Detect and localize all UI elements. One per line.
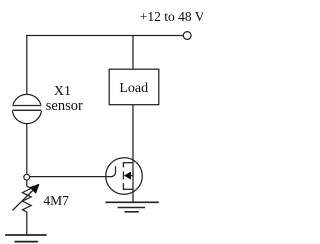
source bar (123, 188, 133, 190)
transistor Q1 MOSFET (106, 158, 143, 195)
wire top horizontal rail (26, 35, 183, 37)
wire supply branch to load (132, 36, 134, 70)
svg-text:Load: Load (119, 81, 148, 96)
wire left vertical to sensor (26, 35, 28, 94)
gate electrode (106, 166, 116, 176)
node junction (24, 174, 30, 180)
svg-text:sensor: sensor (46, 98, 83, 114)
svg-text:X1: X1 (54, 84, 71, 99)
wire junction to resistor (26, 180, 28, 186)
channel segment middle (122, 171, 124, 179)
wire sensor to junction (26, 124, 28, 175)
drain bar (123, 162, 133, 164)
wire gate horizontal (30, 176, 107, 178)
ground transistor (106, 202, 159, 212)
channel segment top (122, 163, 124, 168)
body arrow (124, 172, 131, 179)
sensor X1 (11, 94, 43, 123)
channel segment bottom (122, 183, 124, 189)
wire drain-source vertical (132, 163, 134, 203)
terminal supply (183, 32, 191, 40)
wire resistor to ground (26, 212, 28, 235)
wire load to drain (132, 105, 134, 163)
resistor 4M7 variable (13, 184, 39, 212)
load box (109, 69, 159, 105)
svg-text:+12 to 48 V: +12 to 48 V (140, 9, 203, 24)
svg-text:4M7: 4M7 (43, 193, 69, 208)
ground left (5, 235, 46, 242)
